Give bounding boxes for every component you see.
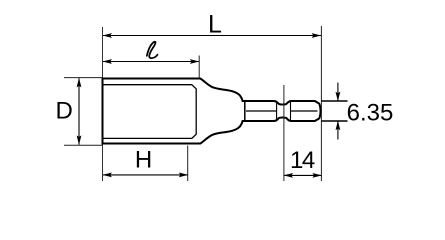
dimension line l	[103, 61, 199, 63]
svg-text:L: L	[208, 11, 222, 39]
arrowhead L right	[312, 33, 322, 38]
extension line 6.35 top	[321, 100, 347, 102]
extension line right of l dim	[198, 56, 200, 79]
arrowhead D bottom	[77, 135, 82, 145]
dimension line L	[103, 35, 321, 37]
socket bit body outline	[103, 79, 321, 144]
extension line groove center (serves 14 dim)	[283, 85, 285, 181]
svg-text:14: 14	[290, 147, 315, 174]
dimension line D	[78, 78, 80, 144]
dimension line H	[103, 174, 188, 176]
hex facet line left of groove	[246, 110, 276, 112]
extension line left (body left edge, serves L, l, H dims)	[102, 27, 104, 181]
extension line 6.35 bottom	[321, 120, 347, 122]
dimension line 6.35 upper segment	[337, 83, 339, 101]
arrowhead 14 right	[312, 173, 322, 178]
dimension line 6.35 lower segment	[337, 121, 339, 139]
groove edge right	[290, 102, 292, 121]
arrowhead H right	[179, 173, 189, 178]
svg-text:D: D	[56, 98, 73, 125]
arrowhead 14 left	[284, 173, 294, 178]
arrowhead 6.35 up	[336, 121, 341, 131]
arrowhead L left	[102, 33, 112, 38]
extension line right (bit tip, serves L, 6.35, 14 dims)	[320, 26, 322, 181]
extension line H right	[187, 146, 189, 182]
arrowhead l left	[102, 59, 112, 64]
svg-text:H: H	[135, 147, 152, 174]
extension line D top	[64, 77, 103, 79]
extension line D bottom	[64, 144, 103, 146]
arrowhead D top	[77, 78, 82, 88]
svg-text:6.35: 6.35	[347, 99, 394, 126]
hex facet line right of groove	[291, 110, 318, 112]
arrowhead H left	[102, 173, 112, 178]
dimension line 14	[284, 174, 321, 176]
socket cavity inner outline	[104, 85, 197, 139]
arrowhead l right	[190, 59, 200, 64]
arrowhead 6.35 down	[336, 92, 341, 102]
collar line at shank root	[244, 100, 246, 122]
label l (script ell)	[147, 42, 158, 58]
groove edge left	[276, 102, 278, 121]
